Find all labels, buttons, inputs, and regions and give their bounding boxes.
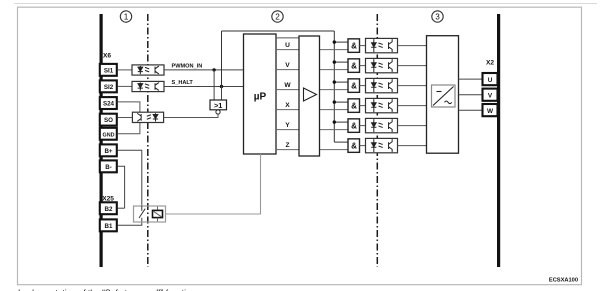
terminal GND	[100, 128, 117, 140]
wire B2	[118, 207, 125, 209]
wire relay to microprocessor	[166, 154, 261, 214]
svg-text:&: &	[351, 62, 357, 71]
terminal B1	[100, 219, 117, 231]
terminal S24	[100, 97, 117, 109]
node feedback junction row 1	[333, 40, 336, 43]
wire S_HALT	[164, 86, 244, 88]
OR gate inverting bubble	[216, 110, 220, 114]
node S_HALT junction	[220, 85, 223, 88]
wire optocoupler to output stage row 2	[398, 65, 427, 67]
left terminal bar	[100, 14, 103, 267]
dash-dot separator line 1	[147, 14, 149, 267]
svg-text:&: &	[351, 102, 357, 111]
wire feedback vertical rail	[333, 31, 335, 142]
terminal SI2	[100, 80, 117, 92]
wire feedback riser at S_HALT node	[221, 31, 223, 87]
svg-text:V: V	[488, 92, 493, 99]
wire feedback stub row 4	[334, 101, 348, 103]
svg-text:S24: S24	[103, 101, 115, 108]
wire feedback stub row 2	[334, 61, 348, 63]
zone marker 3	[432, 11, 443, 22]
OR gate	[210, 100, 227, 110]
AND gate row 2	[348, 59, 360, 73]
svg-text:U: U	[285, 42, 290, 49]
wire optocoupler to output stage row 5	[398, 125, 427, 127]
svg-text:SO: SO	[104, 117, 113, 124]
wire B+ to relay contact	[118, 150, 142, 206]
wire optocoupler to output stage row 3	[398, 85, 427, 87]
svg-text:B+: B+	[104, 148, 112, 155]
wire phase Z	[276, 149, 348, 151]
inverter symbol	[432, 85, 456, 107]
optocoupler SO output	[132, 112, 163, 122]
AND gate row 5	[348, 119, 360, 133]
terminal SI1	[100, 64, 117, 76]
svg-text:SI2: SI2	[104, 84, 114, 91]
wire phase V	[276, 69, 348, 71]
wire optocoupler to output stage row 4	[398, 105, 427, 107]
wire GND to optocoupler bottom	[118, 123, 140, 134]
optocoupler row 2	[366, 58, 398, 72]
svg-text:Y: Y	[285, 122, 290, 129]
optocoupler row 3	[366, 78, 398, 92]
svg-text:Implementation of the “Safe to: Implementation of the “Safe torque off” …	[18, 288, 196, 291]
svg-text:&: &	[351, 42, 357, 51]
wire feedback stub row 3	[334, 81, 348, 83]
svg-text:SI1: SI1	[104, 67, 114, 74]
driver amplifier block	[299, 36, 320, 156]
svg-text:&: &	[351, 122, 357, 131]
wire feedback top rail	[222, 30, 335, 32]
svg-text:V: V	[285, 62, 290, 69]
page rule line	[14, 3, 597, 5]
wire AND gate to optocoupler row 2	[360, 65, 366, 67]
terminal B+	[100, 144, 117, 156]
terminal SO	[100, 114, 117, 126]
svg-text:µP: µP	[254, 91, 267, 102]
amplifier triangle	[304, 88, 317, 101]
svg-text:W: W	[487, 108, 494, 115]
terminal X2 V	[483, 89, 498, 101]
wire phase X	[276, 109, 348, 111]
node feedback junction row 4	[333, 100, 336, 103]
right terminal bar	[497, 14, 500, 267]
wire AND gate to optocoupler row 3	[360, 85, 366, 87]
wire SO to optocoupler	[118, 117, 133, 119]
svg-text:&: &	[351, 82, 357, 91]
node feedback junction row 3	[333, 80, 336, 83]
wire motor V	[459, 94, 483, 96]
svg-text:B1: B1	[105, 223, 113, 230]
svg-text:1: 1	[124, 12, 129, 21]
optocoupler row 6	[366, 138, 398, 152]
wire optocoupler to output stage row 6	[398, 145, 427, 147]
svg-text:>1: >1	[214, 101, 222, 110]
zone marker 1	[120, 11, 131, 22]
svg-text:GND: GND	[103, 132, 115, 138]
terminal X2 W	[483, 104, 498, 116]
AND gate row 6	[348, 139, 360, 153]
wire AND gate to optocoupler row 4	[360, 105, 366, 107]
wire phase W	[276, 89, 348, 91]
svg-text:B2: B2	[105, 206, 113, 213]
optocoupler SI1 input	[132, 65, 164, 75]
optocoupler row 1	[366, 38, 398, 52]
wire PWMON_IN to OR gate	[213, 70, 215, 100]
AND gate row 4	[348, 99, 360, 113]
optocoupler row 4	[366, 98, 398, 112]
svg-text:W: W	[284, 82, 291, 89]
terminal B2	[100, 202, 117, 214]
node PWMON_IN junction	[212, 68, 215, 71]
svg-text:2: 2	[275, 12, 280, 21]
microprocessor	[244, 34, 277, 154]
wire AND gate to optocoupler row 1	[360, 45, 366, 47]
svg-text:X2: X2	[486, 59, 494, 66]
optocoupler SI2 input	[132, 81, 164, 91]
wire phase U	[276, 49, 348, 51]
wire B1 to relay contact	[118, 218, 142, 226]
svg-text:S_HALT: S_HALT	[172, 80, 194, 86]
svg-text:3: 3	[435, 12, 440, 21]
wire feedback stub row 1	[334, 41, 348, 43]
zone marker 2	[272, 11, 283, 22]
svg-text:B-: B-	[105, 164, 112, 171]
relay	[134, 206, 166, 222]
wire optocoupler to output stage row 1	[398, 45, 427, 47]
AND gate row 1	[348, 39, 360, 53]
wire feedback stub row 5	[334, 121, 348, 123]
wire AND gate to optocoupler row 6	[360, 145, 366, 147]
wire PWMON_IN	[164, 69, 244, 71]
wire B- down	[118, 166, 125, 208]
wire S_HALT to OR gate	[221, 87, 223, 101]
node feedback junction row 2	[333, 60, 336, 63]
wire S24 to optocoupler top	[118, 102, 140, 112]
wire phase Y	[276, 129, 348, 131]
wire AND gate to optocoupler row 5	[360, 125, 366, 127]
svg-text:Z: Z	[285, 142, 289, 149]
svg-text:&: &	[351, 142, 357, 151]
AND gate row 3	[348, 79, 360, 93]
svg-text:X6: X6	[103, 53, 111, 60]
node feedback junction row 5	[333, 120, 336, 123]
svg-text:ECSXA100: ECSXA100	[549, 278, 578, 284]
svg-text:X: X	[285, 102, 290, 109]
wire SI1 to optocoupler	[118, 69, 133, 71]
wire motor U	[459, 78, 483, 80]
svg-text:PWMON_IN: PWMON_IN	[172, 64, 203, 70]
wire OR gate output to SO optocoupler	[164, 114, 218, 117]
terminal B-	[100, 160, 117, 172]
phase cell column top edge	[276, 37, 299, 39]
optocoupler row 5	[366, 118, 398, 132]
svg-text:U: U	[488, 77, 493, 84]
terminal X2 U	[483, 73, 498, 85]
output stage block	[427, 36, 459, 154]
wire SI2 to optocoupler	[118, 85, 133, 87]
wire motor W	[459, 109, 483, 111]
dash-dot separator line 2	[376, 14, 378, 267]
wire feedback stub row 6	[334, 141, 348, 143]
